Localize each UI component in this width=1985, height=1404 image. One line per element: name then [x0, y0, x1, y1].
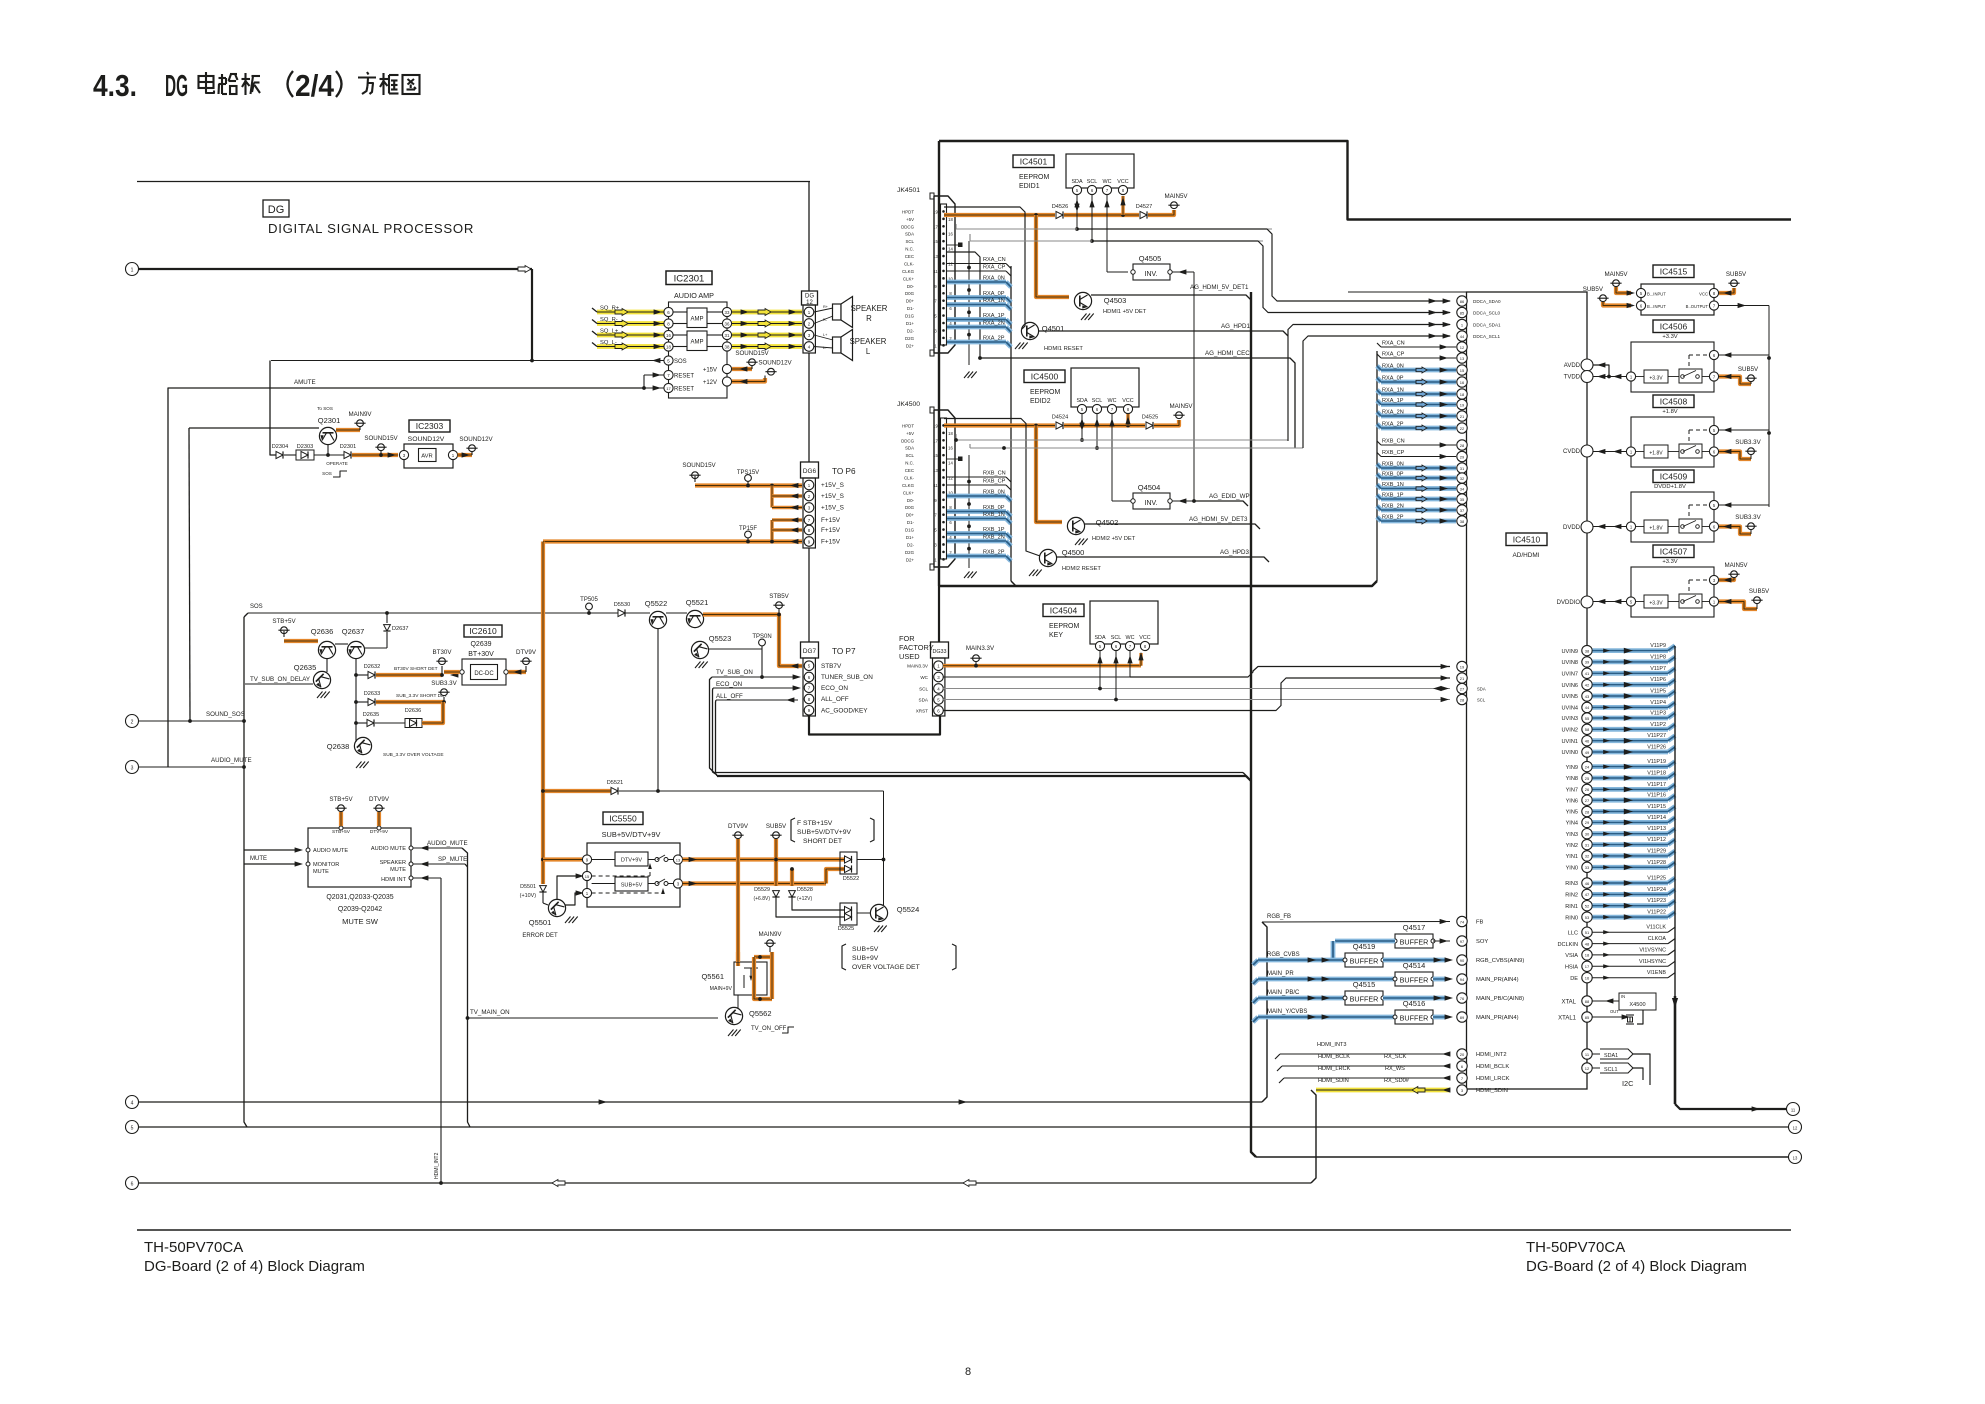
ic IC4515 block	[1636, 284, 1718, 315]
svg-text:D1G: D1G	[905, 314, 915, 319]
wire DDCA_SCL1	[1303, 333, 1451, 448]
svg-text:D5528: D5528	[797, 887, 813, 893]
svg-text:+1.8V: +1.8V	[1649, 526, 1663, 532]
svg-text:MONITOR: MONITOR	[313, 862, 339, 868]
svg-text:RX_WS: RX_WS	[1385, 1066, 1405, 1072]
svg-text:YIN3: YIN3	[1566, 832, 1578, 838]
svg-text:AG_HDMI_CEC: AG_HDMI_CEC	[1205, 350, 1250, 357]
svg-text:D5521: D5521	[607, 780, 623, 786]
svg-text:SOS: SOS	[674, 359, 687, 365]
svg-text:TO P6: TO P6	[832, 467, 856, 476]
svg-text:+3.3V: +3.3V	[1662, 334, 1677, 340]
wire SCL riser 1	[1089, 195, 1094, 243]
power SOUND15V DG6	[682, 462, 716, 482]
svg-text:F+15V: F+15V	[821, 527, 841, 534]
svg-text:D1-: D1-	[907, 306, 915, 311]
svg-text:12: 12	[1585, 1066, 1590, 1071]
power SOUND15V at +15V	[732, 350, 770, 372]
svg-text:Q4516: Q4516	[1403, 999, 1426, 1008]
svg-text:Q2637: Q2637	[342, 627, 365, 636]
wire SQ_L+	[592, 329, 802, 339]
svg-text:EDID1: EDID1	[1019, 183, 1040, 190]
svg-text:AG_HDMI_5V_DET3: AG_HDMI_5V_DET3	[1189, 516, 1248, 523]
wire VCC riser 1	[1120, 196, 1125, 215]
wire rail 4 RGB_FB	[139, 922, 1268, 1105]
svg-text:11: 11	[933, 483, 938, 488]
dc-dc converter IC2610	[444, 625, 508, 685]
svg-text:RXB_CP: RXB_CP	[1382, 450, 1405, 456]
svg-text:V11P27: V11P27	[1647, 733, 1666, 739]
svg-text:V11P29: V11P29	[1647, 848, 1666, 854]
ic IC4500 labels	[1024, 370, 1065, 405]
pins IC4510 control	[1457, 661, 1486, 704]
svg-text:D4524: D4524	[1052, 415, 1068, 421]
svg-text:ECO_ON: ECO_ON	[716, 681, 742, 688]
svg-text:FACTORY: FACTORY	[899, 643, 934, 652]
power SUB3.3V IC4508	[1719, 439, 1762, 459]
svg-text:SUB5V: SUB5V	[1749, 588, 1770, 595]
svg-text:EEPROM: EEPROM	[1030, 389, 1061, 396]
svg-text:EEPROM: EEPROM	[1019, 174, 1050, 181]
ic IC4507 label	[1653, 545, 1694, 558]
svg-text:RGB_CVBS: RGB_CVBS	[1267, 952, 1300, 958]
pin SOS	[271, 356, 687, 365]
svg-text:16: 16	[948, 232, 953, 237]
svg-text:+1.8V: +1.8V	[1649, 451, 1663, 457]
svg-text:47: 47	[1585, 892, 1590, 897]
svg-text:D2303: D2303	[297, 444, 313, 450]
svg-text:MAIN_PR(AIN4): MAIN_PR(AIN4)	[1476, 977, 1519, 983]
svg-text:BUFFER: BUFFER	[1400, 938, 1429, 947]
svg-text:MAIN5V: MAIN5V	[1164, 193, 1188, 200]
svg-text:19: 19	[1460, 664, 1465, 669]
wire JK4500 to DG33	[938, 586, 940, 642]
svg-text:IC2301: IC2301	[674, 274, 705, 285]
svg-text:V11P25: V11P25	[1647, 876, 1666, 882]
svg-text:RESET: RESET	[674, 387, 694, 393]
ic IC4508 label	[1653, 395, 1694, 408]
svg-text:D2304: D2304	[272, 444, 288, 450]
svg-text:SUB5V: SUB5V	[1738, 366, 1759, 373]
svg-text:SCL1: SCL1	[1604, 1067, 1618, 1073]
svg-text:RXA_0P: RXA_0P	[983, 291, 1005, 297]
svg-text:DG: DG	[268, 204, 285, 216]
svg-text:OVER VOLTAGE DET: OVER VOLTAGE DET	[852, 964, 920, 971]
wire DG6 to DG7	[808, 548, 810, 642]
svg-text:ALL_OFF: ALL_OFF	[821, 696, 849, 703]
wire DDCA_SDA0	[1077, 229, 1451, 304]
svg-text:V11P12: V11P12	[1647, 837, 1666, 843]
svg-text:15: 15	[1460, 368, 1465, 373]
svg-text:RXA_CP: RXA_CP	[983, 265, 1006, 271]
svg-text:44: 44	[1460, 334, 1465, 339]
wire SCL1 flag	[1582, 1063, 1643, 1080]
svg-text:SUB+5V/DTV+9V: SUB+5V/DTV+9V	[602, 830, 661, 839]
svg-text:D5530: D5530	[614, 602, 630, 608]
svg-text:B...INPUT: B...INPUT	[1647, 304, 1666, 309]
wire TV_SUB_ON	[710, 669, 802, 773]
power SUB5V IC4506	[1719, 366, 1759, 384]
svg-text:IC4507: IC4507	[1660, 546, 1688, 556]
terminal 6	[126, 1177, 139, 1190]
svg-text:HDMI_LRCK: HDMI_LRCK	[1318, 1066, 1351, 1072]
svg-text:BUFFER: BUFFER	[1400, 976, 1429, 985]
svg-text:IC2303: IC2303	[416, 421, 444, 431]
regulator IC2303 AVR	[399, 420, 457, 468]
svg-text:85: 85	[1585, 1015, 1590, 1020]
wire IC4506 en	[1719, 352, 1769, 357]
svg-text:16: 16	[666, 333, 671, 338]
svg-text:V11P26: V11P26	[1647, 745, 1666, 751]
svg-text:Q4501: Q4501	[1042, 324, 1065, 333]
bus riser to IC4510 flags	[1376, 351, 1378, 581]
svg-text:YIN0: YIN0	[1566, 866, 1578, 872]
svg-text:DG6: DG6	[803, 468, 817, 475]
wires RXB from JK4500	[947, 471, 1011, 562]
svg-text:BUFFER: BUFFER	[1400, 1014, 1429, 1023]
diode D4527	[1136, 204, 1152, 219]
svg-text:D4527: D4527	[1136, 204, 1152, 210]
svg-text:15: 15	[933, 239, 938, 244]
svg-text:SCL: SCL	[1092, 398, 1103, 404]
svg-text:SUB3.3V: SUB3.3V	[431, 680, 457, 687]
diode D2633 short det	[356, 691, 447, 706]
svg-text:Q2636: Q2636	[311, 627, 334, 636]
svg-text:53: 53	[1585, 915, 1590, 920]
transistor Q2635	[245, 658, 331, 698]
wire WC line	[943, 651, 1450, 677]
zener D5529	[753, 887, 844, 917]
svg-text:DTV9V: DTV9V	[728, 823, 749, 830]
wire HDMI_LRCK in	[1279, 1066, 1450, 1083]
wire F+15V feeds	[772, 517, 802, 541]
svg-text:97: 97	[1460, 939, 1465, 944]
svg-text:D0+: D0+	[906, 299, 915, 304]
pins IC4510 power	[1557, 359, 1593, 608]
label mute sw refs	[326, 894, 393, 926]
svg-text:D2-: D2-	[907, 328, 915, 333]
wire DDCA_SCL0	[1092, 241, 1451, 315]
svg-text:IC4501: IC4501	[1020, 156, 1048, 166]
nc pin JK4501	[946, 243, 963, 248]
svg-text:V11P15: V11P15	[1647, 804, 1666, 810]
svg-text:CVDD: CVDD	[1563, 449, 1581, 455]
svg-text:SDA: SDA	[1477, 687, 1486, 692]
svg-text:UVIN5: UVIN5	[1562, 694, 1578, 700]
svg-text:18: 18	[948, 431, 953, 436]
svg-text:25: 25	[1585, 776, 1590, 781]
svg-text:Q2039-Q2042: Q2039-Q2042	[338, 906, 382, 913]
svg-text:Q4514: Q4514	[1403, 961, 1426, 970]
svg-text:8: 8	[965, 1366, 971, 1378]
svg-text:VCC: VCC	[1139, 635, 1150, 641]
wire SCL gray line	[943, 686, 1450, 691]
amplifier AMP L	[673, 331, 722, 351]
svg-text:SDA1: SDA1	[1604, 1053, 1618, 1059]
svg-text:Q4504: Q4504	[1138, 483, 1161, 492]
ground JK4500	[964, 455, 977, 578]
wire DDCA_SDA1	[1288, 322, 1451, 441]
svg-text:51: 51	[1585, 930, 1590, 935]
svg-text:88: 88	[1585, 999, 1590, 1004]
pins IC2301 input	[664, 307, 673, 351]
wire SOS from terminal 1	[139, 266, 533, 361]
svg-text:RXB_1N: RXB_1N	[983, 512, 1005, 518]
svg-text:RXB_0N: RXB_0N	[983, 490, 1005, 496]
transistor Q2638	[327, 737, 444, 768]
svg-text:CLK+: CLK+	[903, 276, 915, 281]
diode D4525	[1142, 415, 1158, 430]
terminal 4	[126, 1096, 139, 1109]
board title	[268, 221, 474, 236]
wires video sync	[1557, 925, 1675, 983]
svg-text:V11P18: V11P18	[1647, 771, 1666, 777]
svg-text:V11P28: V11P28	[1647, 860, 1666, 866]
svg-text:13: 13	[676, 857, 681, 862]
svg-text:14: 14	[948, 461, 953, 466]
svg-text:HDMI_BCLK: HDMI_BCLK	[1476, 1064, 1509, 1070]
svg-text:V11P7: V11P7	[1650, 666, 1666, 672]
svg-text:28: 28	[1460, 697, 1465, 702]
svg-text:SUB5V: SUB5V	[1583, 286, 1604, 293]
svg-text:Q5523: Q5523	[709, 634, 732, 643]
svg-text:Q5524: Q5524	[897, 905, 920, 914]
wire TV_MAIN_ON	[466, 1009, 718, 1020]
svg-text:DDCA_SDA0: DDCA_SDA0	[1473, 299, 1501, 304]
mosfet Q5561	[701, 952, 772, 1001]
svg-text:38: 38	[1460, 519, 1465, 524]
svg-text:V11P13: V11P13	[1647, 826, 1666, 832]
svg-text:RXA_1P: RXA_1P	[1382, 398, 1404, 404]
svg-text:SOUND15V: SOUND15V	[682, 462, 716, 469]
svg-text:STB7V: STB7V	[821, 663, 842, 670]
svg-text:TPS0N: TPS0N	[752, 634, 771, 640]
transistor Q5521	[666, 598, 708, 628]
svg-text:RXB_0P: RXB_0P	[983, 505, 1005, 511]
trunk JK vertical	[938, 141, 940, 586]
pin RESET 17	[642, 383, 694, 392]
svg-text:22: 22	[1460, 426, 1465, 431]
svg-text:AVR: AVR	[421, 454, 433, 460]
svg-text:VI1VSYNC: VI1VSYNC	[1639, 947, 1666, 953]
wire AG_HDMI_5V_DET1	[1091, 284, 1251, 300]
svg-text:Q5501: Q5501	[529, 918, 552, 927]
svg-text:IC4504: IC4504	[1050, 605, 1078, 615]
wire SOS stub	[244, 604, 263, 617]
wire TPS0N	[708, 634, 772, 679]
wire orange to IC5550 pin9	[543, 857, 582, 861]
wire HDMI INT to rail6	[413, 875, 443, 1185]
svg-text:+15V_S: +15V_S	[821, 493, 844, 500]
svg-text:(+10V): (+10V)	[520, 893, 537, 899]
wire AG_HPD3	[1056, 549, 1269, 562]
buffer Q4515	[1343, 980, 1453, 1005]
svg-text:55: 55	[1585, 716, 1590, 721]
svg-text:27: 27	[1460, 686, 1465, 691]
svg-text:Q4519: Q4519	[1353, 942, 1376, 951]
svg-text:DTV+9V: DTV+9V	[621, 858, 643, 864]
svg-text:+1.8V: +1.8V	[1662, 409, 1677, 415]
wire speaker R leads	[814, 305, 833, 324]
wire operate line	[189, 427, 319, 429]
svg-text:BUFFER: BUFFER	[1350, 957, 1379, 966]
svg-text:ALL_OFF: ALL_OFF	[716, 693, 743, 700]
wire IC4510 top stub	[1348, 291, 1467, 293]
svg-text:32: 32	[1585, 854, 1590, 859]
wire AG_HDMI_5V_DET3	[1084, 516, 1260, 529]
svg-text:CEC: CEC	[905, 254, 914, 259]
svg-text:SUB3.3V: SUB3.3V	[1735, 514, 1761, 521]
svg-text:17: 17	[933, 224, 938, 229]
svg-text:Q2639: Q2639	[470, 641, 491, 648]
transistor Q2637	[335, 627, 365, 659]
pin +15V	[703, 364, 732, 373]
svg-text:SUB+5V/DTV+9V: SUB+5V/DTV+9V	[797, 829, 851, 836]
svg-text:IC4515: IC4515	[1660, 266, 1688, 276]
svg-text:D2G: D2G	[905, 550, 915, 555]
diode D2301	[340, 444, 356, 459]
svg-text:30: 30	[1585, 832, 1590, 837]
svg-text:RXB_0P: RXB_0P	[1382, 472, 1404, 478]
terminal 11	[1787, 1103, 1800, 1116]
svg-text:SOUND12V: SOUND12V	[758, 360, 792, 367]
svg-text:SPEAKER: SPEAKER	[850, 337, 887, 346]
terminal 13	[1789, 1151, 1802, 1164]
svg-text:+12V: +12V	[703, 380, 717, 386]
wire AG_HDMI_CEC	[978, 350, 1295, 448]
ic IC4510 outline	[1467, 292, 1588, 1089]
wire SDA riser 1	[1074, 195, 1079, 231]
svg-text:AMP: AMP	[690, 317, 703, 323]
svg-text:SCL: SCL	[905, 453, 914, 458]
svg-text:6: 6	[131, 1182, 134, 1188]
svg-text:TH-50PV70CA: TH-50PV70CA	[144, 1239, 243, 1256]
svg-text:86: 86	[1460, 299, 1465, 304]
svg-text:HPDT: HPDT	[902, 209, 914, 214]
svg-text:Q4515: Q4515	[1353, 980, 1376, 989]
svg-text:19: 19	[933, 423, 938, 428]
svg-text:17: 17	[1585, 964, 1590, 969]
wire SQ_R+	[592, 306, 802, 316]
wire orange to Q4502	[1036, 426, 1062, 523]
svg-text:SCL: SCL	[1477, 698, 1486, 703]
speaker R	[833, 297, 888, 328]
wire orange to AVR	[352, 435, 399, 458]
trunk top	[939, 141, 1791, 220]
svg-text:V11P22: V11P22	[1647, 910, 1666, 916]
transistor Q4502	[1067, 517, 1135, 545]
page number	[965, 1366, 971, 1378]
svg-text:FOR: FOR	[899, 634, 915, 643]
label over voltage det	[842, 944, 956, 971]
svg-text:D5525: D5525	[838, 926, 854, 932]
svg-text:HDMI_INT2: HDMI_INT2	[1476, 1052, 1507, 1058]
svg-text:HPDT: HPDT	[902, 423, 914, 428]
svg-text:UVIN1: UVIN1	[1562, 739, 1578, 745]
power SUB5V IC4515 vcc	[1719, 271, 1747, 296]
svg-text:D4526: D4526	[1052, 204, 1068, 210]
svg-text:DG33: DG33	[932, 649, 946, 655]
svg-text:HDMI_SDIN: HDMI_SDIN	[1318, 1078, 1349, 1084]
pin +12V	[703, 377, 732, 386]
svg-text:N.C.: N.C.	[905, 247, 914, 252]
svg-text:ECO_ON: ECO_ON	[821, 685, 848, 692]
wire JK4501 scl	[970, 234, 1263, 241]
svg-text:DDCG: DDCG	[901, 438, 915, 443]
svg-text:V11CLK: V11CLK	[1646, 925, 1666, 931]
label I2C	[1622, 1079, 1634, 1088]
svg-text:AUDIO MUTE: AUDIO MUTE	[371, 846, 406, 852]
svg-text:D1+: D1+	[906, 321, 915, 326]
power SUB3.3V IC4509	[1719, 514, 1762, 534]
svg-text:D0-: D0-	[907, 284, 915, 289]
svg-text:28: 28	[1460, 443, 1465, 448]
svg-text:OUT: OUT	[1610, 1009, 1619, 1014]
transistor Q5562	[725, 995, 794, 1036]
svg-text:33: 33	[1585, 865, 1590, 870]
svg-text:16: 16	[1460, 380, 1465, 385]
wire MAIN_PR	[1253, 971, 1395, 984]
svg-text:SUB3.3V: SUB3.3V	[1735, 439, 1761, 446]
buffer Q4514	[1393, 961, 1453, 986]
svg-text:V11P8: V11P8	[1650, 654, 1666, 660]
wire DTV9V into Q5561	[736, 952, 740, 962]
svg-text:Q2638: Q2638	[327, 742, 350, 751]
svg-text:DVDDIO: DVDDIO	[1557, 600, 1581, 606]
svg-text:RXA_0N: RXA_0N	[1382, 364, 1404, 370]
svg-text:12: 12	[1793, 1126, 1798, 1131]
svg-text:13: 13	[1793, 1156, 1798, 1161]
svg-text:IC4506: IC4506	[1660, 321, 1688, 331]
svg-text:RXB_1P: RXB_1P	[983, 527, 1005, 533]
svg-text:D2+: D2+	[906, 557, 915, 562]
svg-text:49: 49	[1585, 750, 1590, 755]
wire ALL_OFF	[716, 693, 799, 776]
svg-text:D2635: D2635	[363, 712, 379, 718]
wire JK4501 hpd	[944, 207, 1025, 329]
svg-text:CLKG: CLKG	[902, 269, 915, 274]
svg-text:IC4508: IC4508	[1660, 396, 1688, 406]
svg-text:D5501: D5501	[520, 884, 536, 890]
pin labels JK4500	[901, 423, 915, 562]
svg-text:RXA_CP: RXA_CP	[1382, 352, 1405, 358]
svg-text:TP505: TP505	[580, 597, 598, 603]
svg-text:SOS: SOS	[322, 471, 332, 476]
ic IC4506 label	[1653, 320, 1694, 333]
svg-text:UVIN8: UVIN8	[1562, 660, 1578, 666]
svg-text:94: 94	[1460, 977, 1465, 982]
svg-text:27: 27	[1585, 798, 1590, 803]
wire AG_HPD1	[1038, 323, 1288, 336]
svg-text:Q4500: Q4500	[1062, 548, 1085, 557]
svg-text:I2C: I2C	[1622, 1079, 1634, 1088]
wire JK4501 sda	[956, 224, 1272, 229]
label AUDIO AMP	[674, 291, 714, 300]
svg-text:+15V_S: +15V_S	[821, 482, 844, 489]
power STB+5V	[272, 618, 296, 637]
footer text left	[144, 1239, 365, 1275]
svg-text:D0+: D0+	[906, 513, 915, 518]
zener D5528	[788, 867, 844, 910]
svg-text:SUB5V: SUB5V	[766, 823, 787, 830]
svg-text:MAIN_PR(AIN4): MAIN_PR(AIN4)	[1476, 1015, 1519, 1021]
svg-text:F+15V: F+15V	[821, 517, 841, 524]
svg-text:29: 29	[1585, 820, 1590, 825]
svg-text:AUDIO AMP: AUDIO AMP	[674, 291, 714, 300]
svg-text:15: 15	[933, 453, 938, 458]
svg-text:HDMI_INT3: HDMI_INT3	[1317, 1042, 1347, 1048]
svg-text:VI1HSYNC: VI1HSYNC	[1639, 959, 1666, 965]
